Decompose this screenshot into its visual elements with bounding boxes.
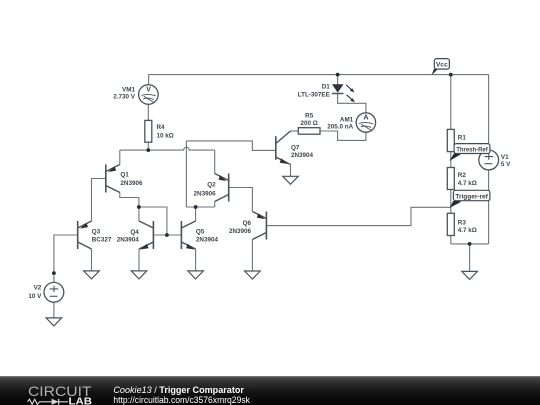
junction R4/emitter rail (146, 148, 150, 152)
svg-text:Thresh-Ref: Thresh-Ref (456, 146, 488, 153)
resistor R4 10 kΩ (145, 120, 152, 142)
transistor Q1 2N3906 (106, 165, 120, 193)
ground below Q7 (283, 176, 299, 184)
svg-text:4.7 kΩ: 4.7 kΩ (458, 180, 477, 187)
wire Q2 collector drop (214, 202, 216, 208)
voltmeter VM1 (139, 85, 159, 105)
footer logo resistor-diode doodle (28, 399, 69, 405)
wire Q1 collector route to mirror node (120, 193, 139, 208)
svg-text:Q6: Q6 (243, 220, 252, 227)
junction D1 anode on Vcc rail (336, 73, 340, 77)
svg-text:2N3904: 2N3904 (196, 237, 219, 244)
svg-text:V2: V2 (34, 284, 42, 291)
svg-text:R3: R3 (458, 220, 467, 227)
wire R4 to emitter rail (147, 142, 149, 150)
wire Q1 base (92, 179, 106, 222)
resistor R3 4.7 kΩ (447, 213, 454, 235)
svg-text:LAB: LAB (69, 397, 93, 405)
junction Q5 collector node (194, 205, 198, 209)
resistor R5 200 Ω (298, 128, 320, 135)
wire Vcc node to D1 anode (337, 75, 339, 85)
junction mirror base rail (165, 233, 169, 237)
wire V2 to ground (53, 302, 55, 318)
svg-text:Q7: Q7 (291, 144, 300, 151)
svg-text:BC327: BC327 (92, 237, 112, 244)
wire route to Q7 base (186, 141, 275, 151)
svg-text:10 kΩ: 10 kΩ (157, 132, 174, 139)
svg-text:5 V: 5 V (501, 161, 511, 168)
svg-text:2N3904: 2N3904 (117, 237, 140, 244)
wire bottom rail ground drop (469, 244, 471, 272)
svg-text:Q2: Q2 (207, 181, 216, 188)
wire Q3 base to V2 (54, 235, 78, 283)
svg-text:Q1: Q1 (120, 171, 129, 178)
wire R5 to AM1 bottom (320, 131, 366, 140)
wire VM1 to R4 (147, 104, 149, 120)
wire Q5 emitter to ground (195, 249, 197, 271)
wire Q3 collector to ground (91, 249, 93, 271)
svg-text:2.730 V: 2.730 V (113, 94, 136, 101)
svg-text:R5: R5 (305, 113, 314, 120)
wire Q7 collector to R5 (291, 130, 299, 132)
svg-text:D1: D1 (322, 83, 331, 90)
junction mirror node Q1/Q4 (137, 205, 141, 209)
svg-text:205.0 nA: 205.0 nA (327, 124, 353, 131)
resistor R1 4.7 kΩ (447, 129, 454, 151)
transistor Q2 2N3906 (215, 174, 229, 202)
svg-text:Cookie13 / Trigger Comparator: Cookie13 / Trigger Comparator (113, 384, 244, 395)
wire top Vcc rail (149, 74, 489, 76)
transistor Q7 2N3904 (276, 131, 291, 165)
svg-text:V1: V1 (501, 154, 509, 161)
svg-text:4.7 kΩ: 4.7 kΩ (458, 227, 477, 234)
wire Q1 emitter drop (119, 150, 121, 165)
ground below Q4 (131, 271, 147, 279)
svg-text:2N3906: 2N3906 (194, 190, 217, 197)
ground below V2 (46, 318, 62, 326)
svg-text:VM1: VM1 (122, 87, 135, 94)
wire Q6 collector to ground (251, 240, 253, 272)
transistor Q6 2N3906 (252, 212, 266, 240)
ground below Q3 (84, 271, 100, 279)
junction bottom rail ground (468, 242, 472, 246)
junction V2 wire (52, 271, 56, 275)
wire bottom rail to V1 minus (451, 243, 489, 245)
svg-text:Vcc: Vcc (436, 62, 448, 69)
svg-text:Q3: Q3 (92, 228, 101, 235)
wire mirror-output vertical x=186.4 (185, 141, 187, 207)
svg-text:2N3904: 2N3904 (291, 152, 314, 159)
wire D1 cathode to AM1 top (338, 94, 366, 113)
voltage source V1 5 V (479, 150, 499, 170)
wire Q2 base to Q6 emitter (229, 188, 253, 212)
svg-text:2N3906: 2N3906 (229, 228, 252, 235)
wire right vertical to V1 plus (488, 75, 490, 151)
wire Q7 emitter to ground (290, 165, 292, 177)
svg-text:Q4: Q4 (130, 229, 139, 236)
svg-text:V: V (146, 84, 151, 93)
ammeter AM1 (356, 113, 375, 132)
wire Q5 collector riser (195, 207, 197, 221)
ground below Q5 (188, 271, 204, 279)
svg-text:Q5: Q5 (196, 228, 205, 235)
diode D1 LTL-307EE (LED) (332, 84, 344, 92)
transistor Q3 BC327 (78, 221, 92, 249)
wire R3 to bottom rail (450, 236, 452, 244)
svg-text:AM1: AM1 (340, 116, 354, 123)
wire mirror base rail Q4-Q5 (153, 234, 181, 236)
wire V1 minus down (488, 170, 490, 244)
ground below Q6 (245, 271, 261, 279)
wire mirror diode loop (139, 207, 167, 235)
transistor Q5 2N3904 (181, 221, 195, 249)
wire Q4 emitter to ground (138, 249, 140, 271)
svg-text:A: A (363, 112, 368, 121)
transistor Q4 2N3904 (mirrored) (139, 221, 153, 249)
wire emitter rail with hop over x=186.4 (120, 147, 215, 150)
wire mirror node to Q4 collector (138, 207, 140, 221)
svg-text:200 Ω: 200 Ω (301, 120, 318, 127)
voltage source V2 10 V (44, 282, 64, 302)
wire Q6 base to Trigger-ref (266, 207, 450, 225)
svg-text:http://circuitlab.com/c3576xmr: http://circuitlab.com/c3576xmrq29sk (113, 394, 250, 405)
wire R1 to R2 (Thresh-Ref node) (450, 152, 452, 168)
node Trigger-ref flag (449, 190, 490, 208)
footer bar (0, 376, 540, 405)
svg-text:R4: R4 (157, 124, 166, 131)
svg-text:Trigger-ref: Trigger-ref (455, 194, 488, 201)
svg-text:2N3906: 2N3906 (120, 180, 143, 187)
wire mid rail (Q2/Q5 collectors) (186, 206, 214, 208)
svg-text:R1: R1 (458, 134, 467, 141)
svg-text:LTL-307EE: LTL-307EE (298, 91, 330, 98)
svg-text:R2: R2 (458, 172, 467, 179)
wire VM1 top riser (148, 75, 150, 85)
wire R2 to R3 (Trigger-ref node) (450, 190, 452, 214)
wire Vcc node to R1 (450, 75, 452, 130)
wire Q2 emitter drop (214, 150, 216, 173)
node Thresh-Ref flag (449, 144, 490, 161)
resistor R2 4.7 kΩ (447, 168, 454, 190)
svg-text:10 V: 10 V (28, 293, 42, 300)
ground below R3 rail (462, 271, 478, 279)
junction R1 branch on Vcc rail (449, 73, 453, 77)
node Vcc flag (432, 59, 450, 75)
